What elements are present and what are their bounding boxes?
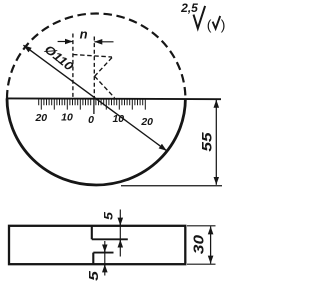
svg-text:0: 0: [88, 114, 94, 126]
svg-text:5: 5: [87, 271, 101, 281]
svg-text:(: (: [207, 17, 212, 33]
zero index tick (extra long): [93, 99, 95, 114]
svg-text:20: 20: [34, 112, 47, 124]
bottom 5 dimension tail: [104, 241, 106, 276]
solid lower half-disc arc: [7, 99, 185, 185]
top 5 upper arrow: [119, 219, 121, 226]
dashed upper circle arc (phantom circle d110): [7, 14, 185, 99]
scale tick marks: [39, 99, 146, 109]
pointer outline upper diagonal (dashed): [95, 58, 112, 77]
top 5 lower arrow: [119, 240, 121, 247]
30 dimension bottom extension: [187, 263, 216, 265]
55 bottom arrow: [215, 178, 217, 185]
roughness mark check: [194, 6, 206, 29]
chord / centre line with 55-dim extension: [7, 97, 221, 100]
svg-text:Ø110: Ø110: [42, 42, 77, 74]
svg-text:20: 20: [140, 116, 153, 128]
svg-text:10: 10: [61, 112, 73, 124]
svg-text:n: n: [80, 27, 88, 42]
55 bottom extension line: [121, 185, 222, 187]
roughness mark small check in parentheses: [213, 16, 221, 29]
svg-text:10: 10: [112, 113, 124, 125]
slot hidden edge left (dashed vertical): [72, 34, 74, 98]
slot hidden edge right (dashed vertical): [93, 37, 95, 98]
top 5 dimension tail: [119, 210, 121, 257]
diameter leader arrowhead lower: [157, 143, 167, 151]
30 top arrow: [210, 226, 212, 233]
30 dimension line: [210, 229, 212, 261]
diameter leader arrowhead upper: [24, 45, 34, 53]
55 dimension line: [215, 104, 217, 179]
svg-text:55: 55: [200, 132, 215, 152]
svg-text:5: 5: [101, 211, 115, 220]
pointer outline lower diagonal (dashed): [95, 76, 115, 98]
dimension n left arrow: [58, 41, 73, 43]
30 dimension top extension: [187, 225, 216, 227]
svg-text:): ): [221, 17, 226, 33]
side view bar outline: [9, 226, 185, 264]
30 bottom arrow: [210, 257, 212, 264]
slot lower vertical V3: [92, 253, 94, 265]
bottom 5 lower arrow: [104, 264, 106, 270]
pointer outline horizontal (dashed): [73, 55, 112, 58]
bottom 5 upper arrow: [104, 246, 106, 252]
diameter leader line: [23, 45, 167, 151]
dimension n right arrow: [94, 41, 113, 43]
slot upper-left vertical V1: [91, 226, 93, 239]
svg-text:30: 30: [192, 235, 207, 254]
55 top arrow: [215, 100, 217, 107]
svg-text:2,5: 2,5: [180, 1, 198, 15]
slot step line H2: [93, 252, 113, 254]
slot step line H1: [92, 238, 128, 240]
